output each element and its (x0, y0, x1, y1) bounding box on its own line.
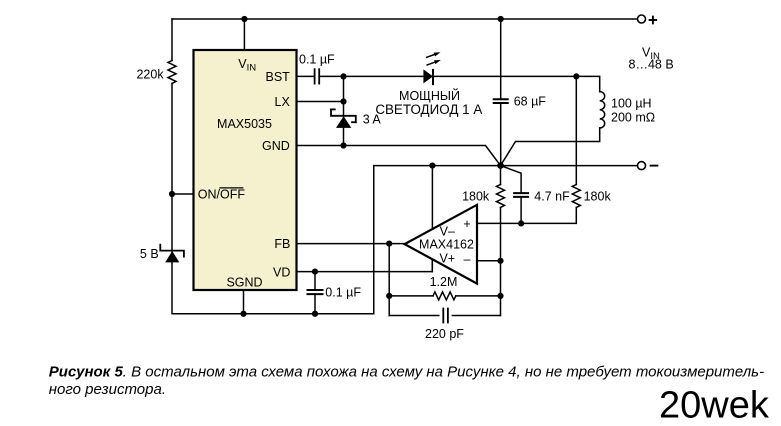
wire LED cathode to inductor top (433, 76, 600, 91)
wire LX stub (297, 101, 344, 103)
wire opamp V- supply drop (431, 166, 433, 229)
svg-text:180k: 180k (584, 190, 612, 204)
LED arrowheads (434, 52, 441, 56)
zener D1 triangle (165, 251, 179, 262)
wire top rail (172, 18, 637, 20)
svg-text:ON/OFF: ON/OFF (198, 187, 246, 201)
svg-text:100 µH: 100 µH (611, 97, 652, 111)
svg-text:GND: GND (262, 139, 290, 153)
svg-text:ного резистора.: ного резистора. (49, 381, 166, 398)
svg-text:VD: VD (273, 265, 290, 279)
svg-text:+: + (463, 217, 470, 231)
resistor R1 220k (168, 61, 176, 84)
terminal - (638, 162, 646, 170)
wire VIN drop (243, 19, 245, 50)
svg-text:0.1 µF: 0.1 µF (299, 53, 335, 67)
svg-text:МОЩНЫЙ: МОЩНЫЙ (399, 88, 460, 103)
svg-text:1.2M: 1.2M (430, 275, 458, 289)
wire FB feedback drop (388, 244, 390, 316)
wire VD line (297, 259, 433, 271)
svg-text:4.7 nF: 4.7 nF (534, 190, 570, 204)
svg-text:180k: 180k (462, 190, 490, 204)
wire ON/OFF stub (172, 193, 194, 195)
svg-text:BST: BST (265, 70, 290, 84)
svg-text:Рисунок 5. В остальном эта схе: Рисунок 5. В остальном эта схема похожа … (49, 364, 764, 381)
capacitor C4 0.1uF (VD) branch (314, 272, 316, 289)
wire opamp V+ supply drop (431, 259, 433, 271)
wire plus-input line (477, 208, 576, 224)
svg-text:0.1 µF: 0.1 µF (325, 286, 361, 300)
wire BST/LX/GND vertical through Schottky (343, 76, 345, 145)
wire SGND drop (243, 290, 245, 314)
capacitor C1 0.1uF (BST) (314, 69, 316, 83)
svg-text:MAX5035: MAX5035 (217, 117, 272, 131)
capacitor C3 4.7nF branch (501, 166, 522, 193)
wire BST to cap (297, 75, 314, 77)
capacitor C5 220pF line (389, 315, 439, 317)
wire FB line (297, 243, 405, 245)
svg-text:20wek: 20wek (659, 384, 770, 426)
svg-text:SGND: SGND (226, 276, 262, 290)
svg-text:LX: LX (275, 95, 291, 109)
svg-text:8…48 В: 8…48 В (629, 58, 674, 72)
inductor L1 100uH coil (600, 92, 605, 128)
resistor R3 180k (right) column (572, 185, 580, 208)
svg-text:–: – (464, 252, 471, 266)
label - terminal (651, 165, 658, 167)
svg-text:220 pF: 220 pF (425, 327, 464, 341)
diode D2 Schottky 3A symbol (331, 108, 335, 110)
IC U1 MAX5035 body (194, 50, 297, 290)
svg-text:FB: FB (274, 237, 290, 251)
svg-text:220k: 220k (136, 68, 164, 82)
svg-text:200 mΩ: 200 mΩ (611, 111, 655, 125)
caption (49, 364, 764, 399)
wire minus rail (374, 165, 638, 167)
wire inductor bottom to node (501, 128, 600, 166)
junction dots (241, 16, 247, 22)
label + terminal (650, 19, 657, 21)
diode D2 triangle (336, 116, 351, 128)
svg-text:СВЕТОДИОД 1 А: СВЕТОДИОД 1 А (375, 102, 482, 117)
svg-text:5 В: 5 В (140, 247, 159, 261)
svg-text:68 µF: 68 µF (514, 95, 547, 109)
zener D1 5V symbol (160, 245, 184, 257)
wire GND run to node (297, 146, 501, 166)
wire 68uF column (500, 19, 502, 98)
svg-text:V+: V+ (439, 251, 455, 265)
wire left branch: 220k column down, bottom ground run, up to minus rail (171, 19, 173, 61)
LED D3 arrows (427, 55, 435, 58)
wire minus-input line (477, 260, 501, 262)
LED D3 triangle and bar (423, 69, 433, 83)
resistor R4 1.2M line (389, 295, 433, 297)
wire cap to LED anode (321, 75, 424, 77)
resistor R2 180k (left) column (500, 166, 502, 185)
svg-text:MAX4162: MAX4162 (419, 238, 474, 252)
terminal + (638, 15, 646, 23)
capacitor C2 68uF plates (494, 98, 508, 100)
op-amp U2 MAX4162 triangle (405, 205, 477, 284)
svg-text:V–: V– (440, 224, 455, 238)
